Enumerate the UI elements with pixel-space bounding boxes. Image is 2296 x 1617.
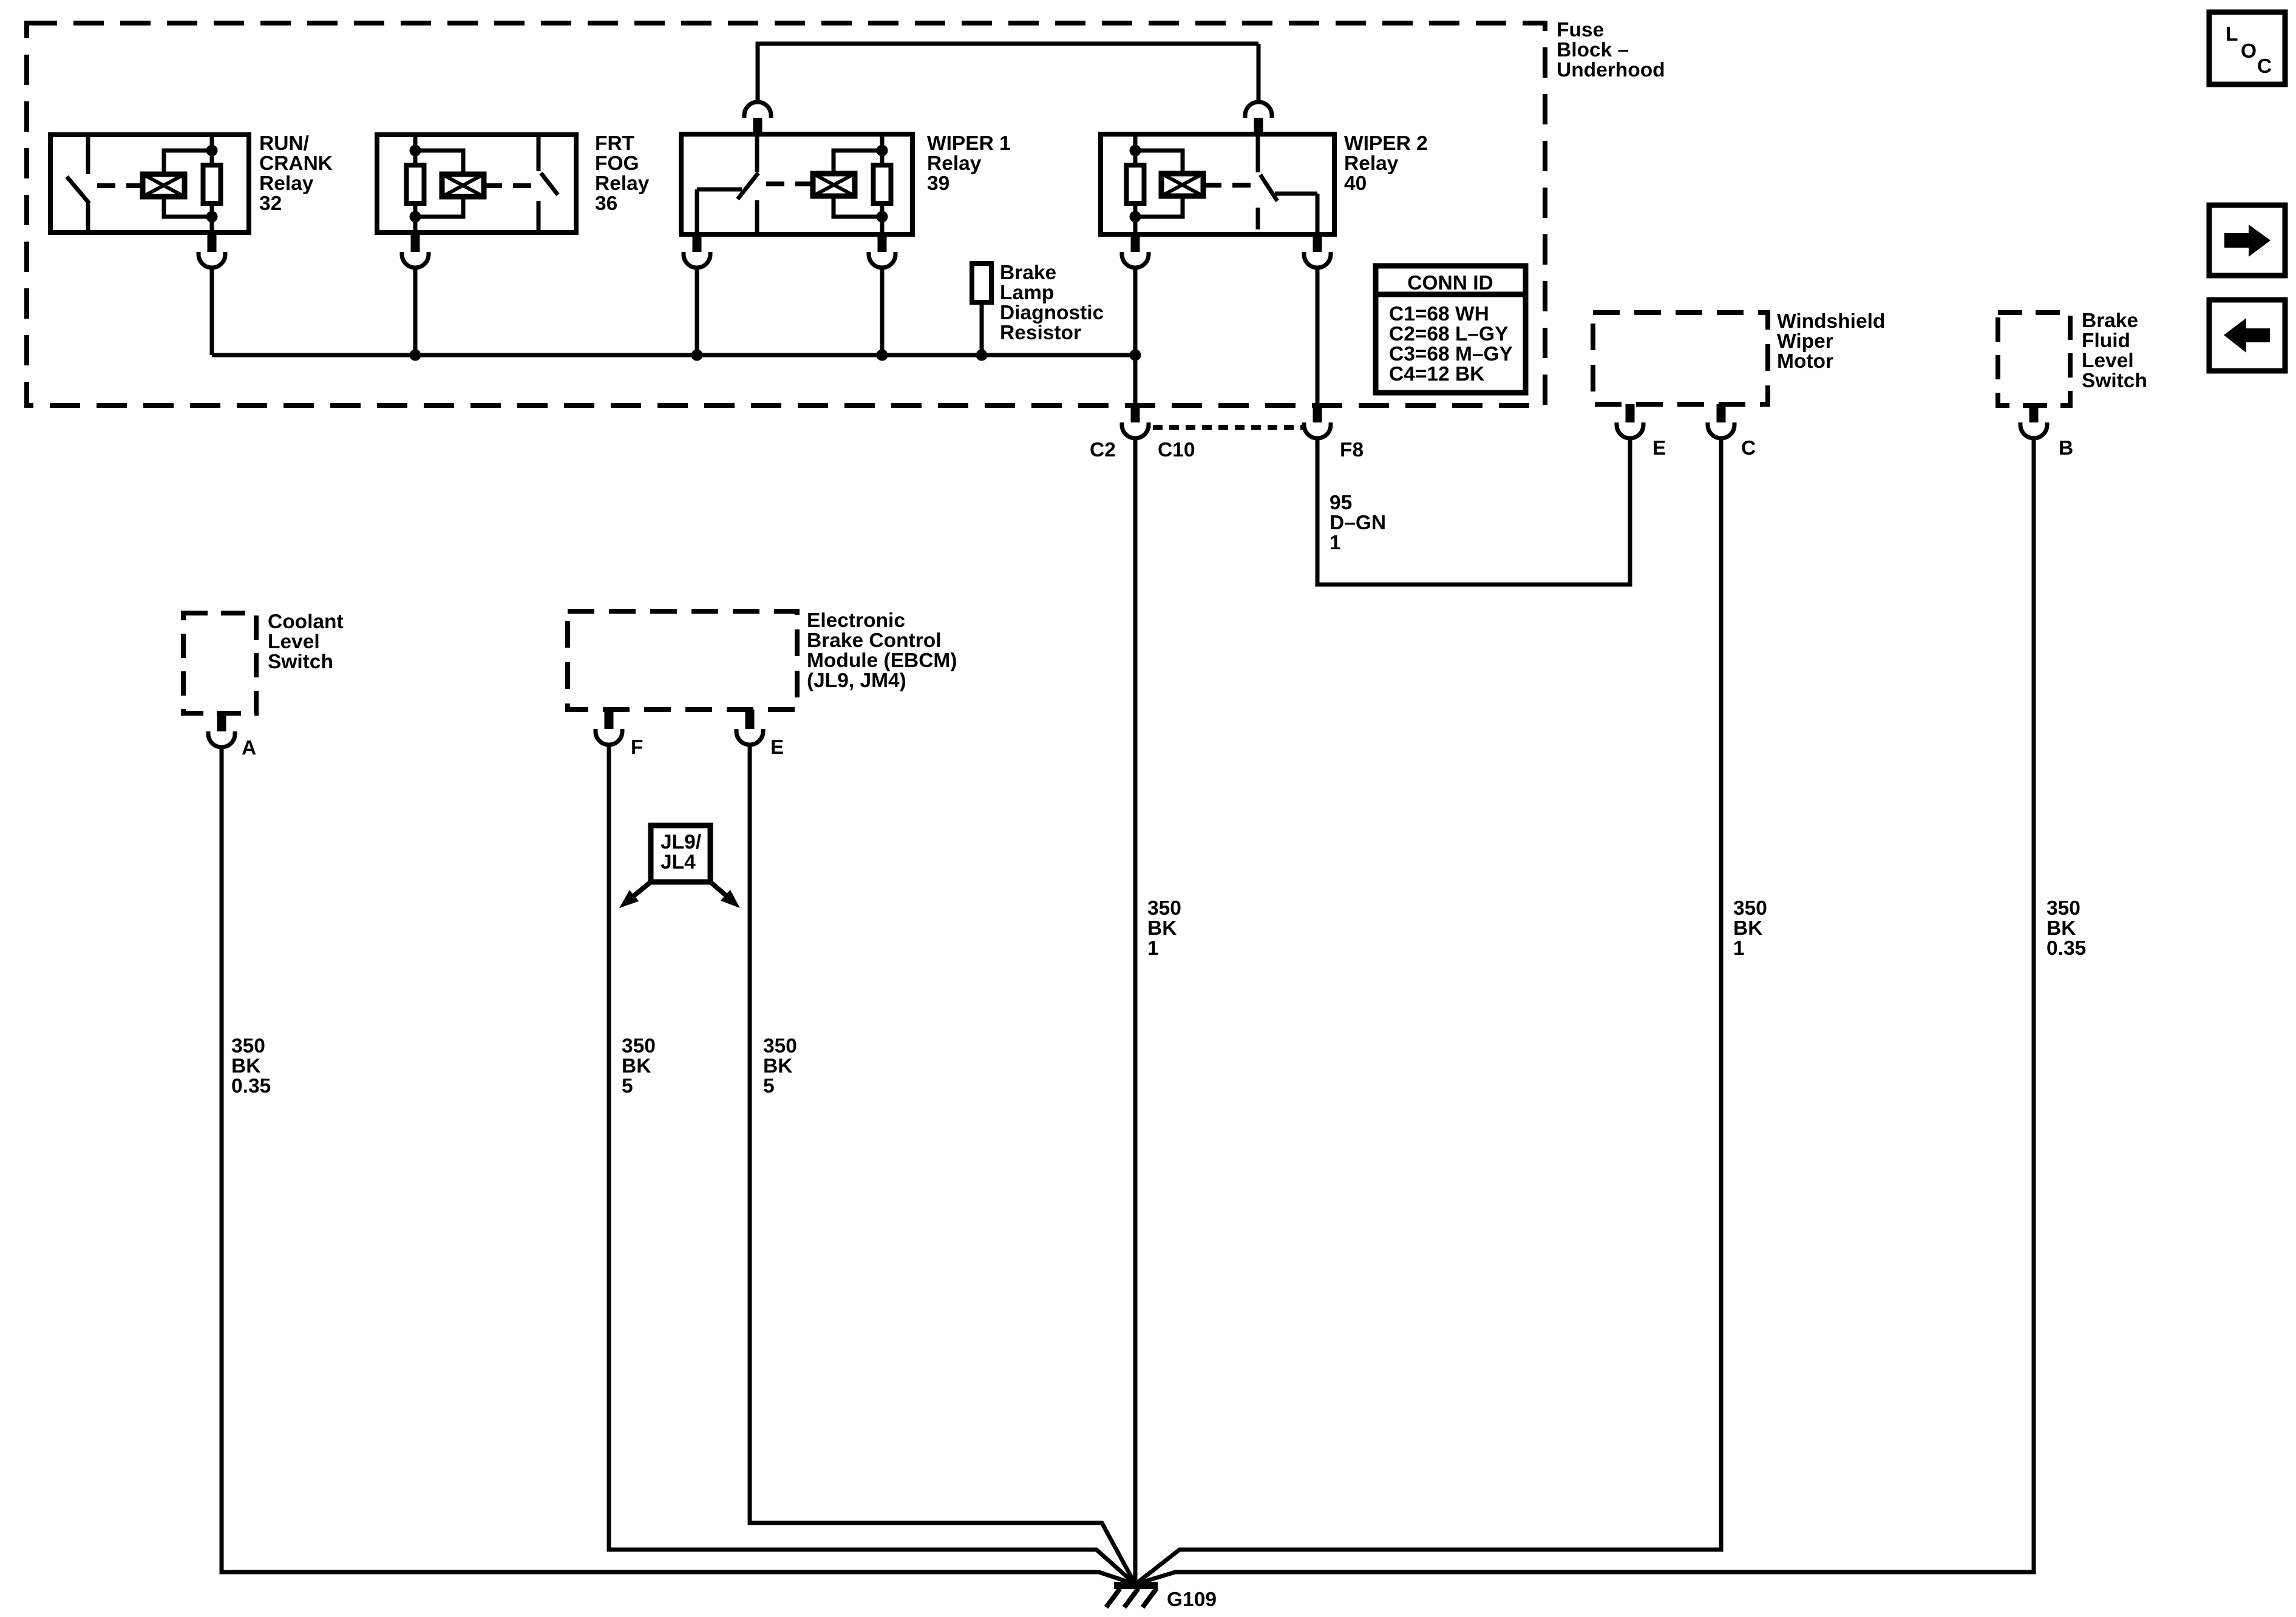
W1 coil link dashed [766,181,813,186]
W2 top pin stub [1254,118,1263,134]
W2 coil [1161,174,1203,196]
svg-text:WIPER 2: WIPER 2 [1344,132,1428,155]
bus node W1 right [877,350,888,361]
EBCM pin F connector [596,729,622,745]
label WIPER 2 Relay 40 [1344,132,1428,195]
EBCM dashed box [568,611,797,710]
W2 right pin connector [1304,252,1331,268]
right arrow icon [2209,205,2285,276]
W1 left pin connector [684,252,710,268]
svg-text:36: 36 [595,192,617,215]
pin label E (EBCM) [770,736,784,759]
svg-text:BK: BK [2046,917,2076,940]
svg-text:BK: BK [622,1055,651,1077]
wiper motor pin E connector [1617,422,1643,438]
EBCM pin E stub [746,710,755,729]
W1 resistor [874,165,891,203]
svg-text:CRANK: CRANK [259,152,333,175]
pin label B [2059,437,2073,459]
BFLS pin B connector [2020,422,2047,438]
W2 node bottom [1130,211,1141,223]
W2 left pin connector [1122,252,1149,268]
label Coolant Level Switch [268,611,344,673]
svg-text:C10: C10 [1158,439,1195,461]
svg-text:C3=68 M–GY: C3=68 M–GY [1389,343,1513,365]
W1 switch [697,134,758,234]
svg-text:350: 350 [231,1035,265,1057]
svg-text:O: O [2241,40,2257,63]
label Electronic Brake Control Module [807,609,957,692]
R36 pin stub [411,232,420,252]
R32 pin connector [199,252,225,268]
relay R32 RUN/CRANK box [50,135,249,232]
R32 switch [67,135,89,232]
relay W1 WIPER 1 box [681,134,912,234]
svg-text:JL4: JL4 [661,851,696,873]
pin label C10 [1158,439,1195,461]
svg-text:Coolant: Coolant [268,611,344,633]
wiper motor pin E stub [1626,404,1635,422]
label RUN/CRANK Relay 32 [259,132,333,215]
svg-text:Level: Level [2082,350,2134,372]
brake fluid level switch dashed box [1998,313,2070,405]
R36 left leg wire [413,135,418,232]
wire W1 right to ground bus [880,268,885,355]
wire label 350 BK 1 (C10) [1147,897,1181,960]
C2 connector [1122,422,1149,438]
relay R36 FRT FOG box [377,135,576,232]
W2 top pin connector [1245,102,1272,118]
W1 node bottom [877,211,888,223]
wire R36 to ground bus [413,268,418,355]
W1 right pin stub [878,234,887,252]
svg-text:1: 1 [1733,937,1745,960]
bus node C2 [1130,350,1141,361]
pin label E (wiper motor) [1652,437,1666,459]
svg-text:A: A [242,737,256,759]
W1 top pin connector [744,102,771,118]
W1 coil [813,174,855,196]
svg-text:1: 1 [1147,937,1159,960]
wire label 350 BK 1 (C) [1733,897,1767,960]
W2 switch [1258,134,1317,234]
svg-text:40: 40 [1344,172,1367,195]
F8 pin stub [1313,405,1322,422]
wire C10 to ground G109 [1133,438,1138,1584]
R36 coil parallel loop [415,151,463,217]
svg-text:Windshield: Windshield [1777,310,1885,333]
svg-text:BK: BK [1147,917,1177,940]
svg-text:1: 1 [1330,532,1341,554]
svg-text:WIPER 1: WIPER 1 [927,132,1011,155]
label FRT FOG Relay 36 [595,132,650,215]
EBCM pin F stub [605,710,614,729]
windshield wiper motor dashed box [1593,313,1768,404]
svg-text:Relay: Relay [927,152,982,175]
svg-text:C2=68 L–GY: C2=68 L–GY [1389,323,1508,345]
R32 coil [143,174,185,197]
ground bus wire [212,353,1135,358]
R36 node bottom [410,211,421,223]
C10 connector dashed line [1153,425,1303,430]
wiper motor pin C connector [1708,422,1734,438]
wire C to ground [1135,438,1721,1584]
svg-text:Electronic: Electronic [807,609,905,632]
W2 coil parallel loop [1135,151,1183,217]
svg-text:Relay: Relay [595,172,650,195]
R36 switch [538,135,558,232]
R32 pin stub [208,232,217,252]
pin label C (wiper motor) [1741,437,1756,459]
W2 node top [1130,145,1141,157]
wire A to ground [222,747,1135,1584]
label Fuse Block - Underhood [1557,19,1665,81]
R32 node bottom [206,211,218,223]
svg-text:95: 95 [1330,492,1352,514]
wire W2 right to F8 [1316,268,1320,403]
JL9 arrow left [619,882,651,908]
bus node resistor [976,350,988,361]
bus node W1 left [691,350,703,361]
relay W2 WIPER 2 box [1101,134,1334,234]
wire 95 D-GN 1 F8 to wiper motor E [1317,438,1630,585]
svg-text:D–GN: D–GN [1330,512,1386,534]
wire F to ground [609,745,1135,1584]
wire W2 left to bus and C2 [1133,268,1138,403]
W1 right pin connector [869,252,895,268]
wire label 350 BK 0.35 (B) [2046,897,2086,960]
pin label F8 [1340,439,1364,461]
label Windshield Wiper Motor [1777,310,1885,373]
JL9/JL4 option box [651,825,710,882]
svg-text:350: 350 [2046,897,2080,920]
svg-text:BK: BK [763,1055,792,1077]
svg-text:BK: BK [1733,917,1762,940]
svg-text:5: 5 [763,1075,775,1097]
svg-text:FOG: FOG [595,152,639,175]
CONN ID table [1376,266,1526,393]
svg-text:Level: Level [268,631,320,653]
svg-text:Brake: Brake [2082,310,2138,332]
label Brake Lamp Diagnostic Resistor [1000,262,1104,344]
svg-text:E: E [1652,437,1666,459]
R32 coil parallel loop [164,151,212,217]
svg-text:C2: C2 [1090,439,1116,461]
wire R32 to ground bus [210,268,214,355]
W1 right leg wire [880,134,885,234]
C2 pin stub [1131,405,1140,422]
label WIPER 1 Relay 39 [927,132,1011,195]
wire label 350 BK 5 (F) [622,1035,656,1097]
pin label A [242,737,256,759]
pin label C2 [1090,439,1116,461]
ground G109 symbol [1106,1585,1158,1607]
brake lamp diagnostic resistor [972,263,991,302]
R36 coil [442,174,484,197]
svg-text:G109: G109 [1167,1588,1217,1611]
svg-text:F8: F8 [1340,439,1364,461]
bus node R36 [410,350,421,361]
svg-text:Brake Control: Brake Control [807,629,942,652]
svg-text:C1=68 WH: C1=68 WH [1389,303,1489,325]
coolant level switch dashed box [183,613,256,713]
wire label 350 BK 5 (E) [763,1035,797,1097]
label JL9/JL4 [661,831,701,873]
svg-text:BK: BK [231,1055,260,1077]
svg-text:0.35: 0.35 [231,1075,271,1097]
svg-text:C4=12 BK: C4=12 BK [1389,363,1484,385]
CLS pin A stub [217,713,226,731]
R36 coil link dashed [484,183,535,188]
wire W2 top drop [1257,44,1261,102]
svg-text:E: E [770,736,784,759]
svg-text:FRT: FRT [595,132,635,155]
EBCM pin E connector [736,729,763,745]
W1 top pin stub [753,118,763,134]
svg-text:Brake: Brake [1000,262,1056,284]
svg-text:Relay: Relay [259,172,314,195]
svg-text:Relay: Relay [1344,152,1399,175]
W2 right pin stub [1313,234,1322,252]
svg-text:CONN ID: CONN ID [1407,272,1493,294]
wire W1 left to ground bus [695,268,699,355]
BFLS pin B stub [2029,405,2039,422]
CONN ID rows [1389,303,1513,385]
svg-text:Module (EBCM): Module (EBCM) [807,649,957,672]
svg-text:C: C [1741,437,1756,459]
svg-text:39: 39 [927,172,949,195]
svg-text:Lamp: Lamp [1000,282,1054,304]
svg-text:C: C [2257,55,2272,78]
wire label 95 D-GN 1 [1330,492,1386,554]
LOC icon box [2209,12,2285,84]
svg-text:Block –: Block – [1557,39,1629,61]
wiper motor pin C stub [1717,404,1726,422]
svg-text:Switch: Switch [268,651,333,673]
wire W1 top to W2 top [758,44,1258,102]
left arrow icon [2209,300,2285,371]
svg-text:Wiper: Wiper [1777,330,1833,353]
svg-text:F: F [631,736,643,759]
svg-text:350: 350 [622,1035,656,1057]
svg-text:Motor: Motor [1777,350,1833,373]
W2 resistor [1127,165,1144,203]
svg-text:350: 350 [763,1035,797,1057]
wire B to ground [1135,438,2034,1584]
W2 left pin stub [1131,234,1140,252]
R36 pin connector [402,252,429,268]
wire resistor to ground bus [980,302,984,355]
R32 right leg wire [210,135,214,232]
R36 node top [410,145,421,157]
svg-text:0.35: 0.35 [2046,937,2086,960]
svg-text:32: 32 [259,192,282,215]
JL4 arrow right [710,882,740,908]
fuse block underhood dashed box [27,23,1545,405]
W1 left pin stub [693,234,702,252]
svg-text:Fluid: Fluid [2082,330,2130,352]
label G109 [1167,1588,1217,1611]
R32 coil link dashed [97,183,143,188]
W1 coil parallel loop [834,151,882,217]
svg-text:B: B [2059,437,2073,459]
svg-text:(JL9, JM4): (JL9, JM4) [807,670,906,692]
wire label 350 BK 0.35 (A) [231,1035,271,1097]
label Brake Fluid Level Switch [2082,310,2147,392]
svg-text:5: 5 [622,1075,633,1097]
svg-text:Underhood: Underhood [1557,59,1665,81]
pin label F [631,736,643,759]
svg-text:350: 350 [1733,897,1767,920]
wire E to ground [750,745,1135,1584]
svg-text:L: L [2226,23,2238,46]
R36 resistor [407,165,424,203]
svg-text:Switch: Switch [2082,370,2147,392]
W2 left leg wire [1133,134,1138,234]
svg-text:JL9/: JL9/ [661,831,701,853]
W2 coil link dashed [1203,183,1252,188]
W1 node top [877,145,888,157]
svg-text:Diagnostic: Diagnostic [1000,302,1104,324]
svg-text:Resistor: Resistor [1000,322,1081,344]
F8 connector [1304,422,1331,438]
svg-text:RUN/: RUN/ [259,132,309,155]
R32 resistor [203,165,221,203]
svg-text:350: 350 [1147,897,1181,920]
svg-text:Fuse: Fuse [1557,19,1604,41]
CONN ID header [1407,272,1493,294]
R32 node top [206,145,218,157]
CLS pin A connector [208,731,235,747]
